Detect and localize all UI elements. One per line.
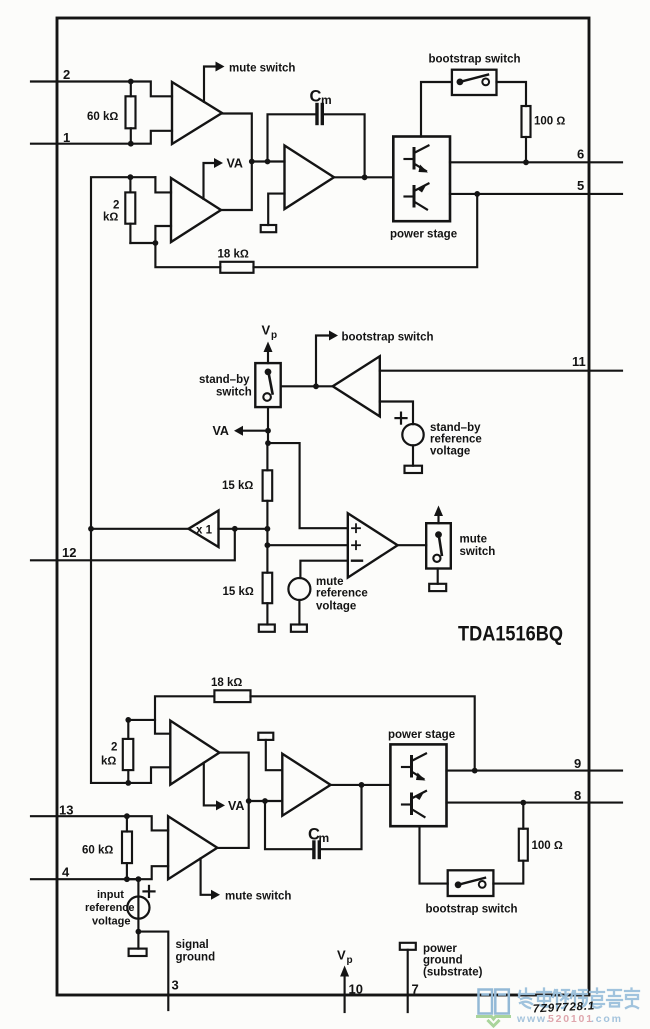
wire U2 output up [221, 162, 252, 211]
wire to comparator plus1 [268, 443, 348, 528]
wire U1 lower input step [131, 131, 172, 144]
transistor Q3 [402, 754, 426, 781]
wire stand-by switch to U4 [281, 385, 333, 387]
wire 18k to pin9 [251, 696, 475, 770]
node VA junction a [249, 159, 255, 165]
resistor R3 100 ohm top [522, 106, 531, 162]
svg-text:mute: mute [460, 533, 487, 545]
label Vp (bottom) [337, 948, 353, 967]
pin 11 wire [380, 370, 622, 372]
svg-text:power: power [423, 943, 457, 955]
node VA arrow junction [265, 428, 271, 434]
wire VA tap U7 [204, 763, 216, 806]
node pin9/feedback junction [472, 768, 478, 774]
mute switch contact dot [435, 531, 442, 538]
wire U9 upper input step [127, 816, 168, 830]
capacitor Cm bottom [314, 842, 319, 858]
node comparator plus2 junction [265, 542, 271, 548]
svg-text:kΩ: kΩ [101, 756, 116, 768]
stand-by switch lever [269, 373, 273, 394]
wire 100ohm to bootstrap ch2 [493, 861, 523, 884]
label Cm bottom [308, 826, 329, 846]
node U7 upper junction [125, 717, 131, 723]
wire bus to 2k top [91, 177, 155, 529]
watermark url [516, 1013, 623, 1025]
plus sign input ref [144, 886, 155, 897]
ground signal [129, 932, 147, 956]
wire 18k to U2 input [155, 243, 220, 267]
node 2k bottom junction [125, 780, 131, 786]
label 2 kOhm top [103, 200, 119, 224]
arrow bootstrap switch (middle) [329, 331, 338, 341]
svg-text:100 Ω: 100 Ω [532, 840, 563, 852]
svg-text:p: p [271, 330, 277, 341]
pin 10 wire [344, 974, 346, 1012]
wire power stage to bootstrap ch2 [420, 826, 448, 883]
svg-text:V: V [337, 948, 346, 963]
svg-text:.com: .com [591, 1013, 623, 1025]
svg-text:2: 2 [63, 67, 70, 82]
wire U7 output down [219, 753, 248, 801]
svg-text:stand–by: stand–by [430, 422, 481, 434]
wire bootstrap to 100 ohm [497, 82, 527, 106]
wire U3 output to power stage [334, 176, 393, 178]
node U2 lower junction [153, 240, 159, 246]
comparator plus2 mark [352, 541, 360, 549]
svg-text:3: 3 [172, 978, 179, 993]
ground mute ref [291, 625, 307, 632]
ground U8 driver [258, 733, 282, 771]
wire x1 output [219, 528, 268, 530]
svg-text:12: 12 [62, 545, 76, 560]
watermark book logo [478, 990, 510, 1027]
transistor Q1 [405, 146, 429, 173]
op-amp U6 (mute comparator) [348, 513, 398, 577]
op-amp U4 (stand-by amp) [333, 356, 380, 416]
wire 18k left leg [155, 696, 214, 720]
label mute reference voltage [316, 576, 368, 613]
svg-text:mute switch: mute switch [229, 63, 295, 75]
svg-text:p: p [347, 955, 353, 966]
resistor R10 100 ohm bottom [519, 803, 528, 861]
arrow Vp (middle) [264, 342, 273, 353]
label signal ground [176, 939, 216, 964]
pin 7 wire [407, 950, 409, 1012]
wire mute switch to ground [437, 569, 439, 584]
switch lever ch1 [460, 75, 488, 82]
arrow Vp pin 10 [340, 966, 349, 977]
node input ref junction [136, 876, 142, 882]
wire Cm to output node [324, 114, 365, 177]
mute switch lever [439, 535, 442, 555]
svg-text:9: 9 [574, 756, 581, 771]
arrow mute switch (bottom) [211, 890, 220, 900]
wire comparator to mute switch [398, 544, 427, 546]
op-amp U3 (driver ch1) [285, 146, 335, 210]
input reference source [127, 897, 149, 919]
mute reference source [288, 578, 310, 600]
node 2k top junction [127, 174, 133, 180]
pin 13 wire [31, 815, 127, 817]
ground power substrate [400, 943, 416, 950]
label Vp (middle) [262, 323, 278, 342]
wire Cm branch up [268, 114, 316, 161]
svg-text:reference: reference [85, 902, 135, 914]
wire Vp to stand-by switch [267, 350, 269, 363]
pin 9 wire [447, 770, 623, 772]
svg-text:mute: mute [316, 576, 343, 588]
wire bootstrap arrow (middle) [316, 336, 329, 387]
pin 1 wire [31, 143, 131, 145]
ground mute switch [429, 584, 446, 591]
svg-text:10: 10 [349, 982, 363, 997]
wire to comparator plus2 [267, 544, 347, 546]
label input reference voltage [85, 889, 135, 928]
label power ground substrate [423, 943, 483, 979]
svg-text:5: 5 [577, 178, 584, 193]
wire VA tap U2 [204, 163, 215, 199]
svg-text:11: 11 [572, 354, 586, 369]
op-amp U7 (feedback amp ch2) [170, 721, 219, 785]
svg-text:60 kΩ: 60 kΩ [82, 845, 113, 857]
mute switch box [426, 523, 451, 568]
node x1 output junction [232, 526, 238, 532]
label stand-by switch [199, 374, 252, 399]
svg-text:input: input [97, 889, 124, 901]
op-amp U9 (input amp ch2) [168, 816, 217, 879]
wire U4 ref input [380, 402, 413, 425]
svg-text:15 kΩ: 15 kΩ [222, 480, 253, 492]
wire U7 lower input step [151, 767, 170, 783]
capacitor Cm top [317, 105, 322, 124]
node output/Cm junction [362, 174, 368, 180]
svg-text:7: 7 [412, 982, 419, 997]
pin 3 wire [138, 932, 168, 1010]
wire U1 upper input step [131, 82, 172, 97]
resistor R2 2k top [125, 177, 135, 243]
svg-text:ground: ground [423, 954, 463, 966]
label mute switch (middle) [460, 533, 496, 558]
arrow VA (top) [214, 158, 223, 168]
wire U1 output down [222, 114, 252, 162]
wire U7 upper input step [128, 720, 170, 734]
wire VA node to U3 [252, 160, 285, 162]
wire feedback down ch1 [254, 194, 478, 267]
wire U8 output to power stage [331, 784, 391, 786]
node pin1/R1 junction [128, 141, 134, 147]
svg-text:switch: switch [216, 387, 252, 399]
wire stand-by switch to VA node [267, 407, 269, 443]
svg-text:1: 1 [63, 130, 70, 145]
arrow to mute switch (top) [216, 62, 225, 72]
svg-text:TDA1516BQ: TDA1516BQ [458, 623, 563, 646]
wire U2 lower input step [155, 226, 171, 243]
stand-by switch box [255, 363, 280, 407]
wire bus to x1 [91, 528, 189, 530]
svg-text:reference: reference [430, 434, 482, 446]
ground 15k chain [259, 625, 275, 632]
node pin13/R9 junction [124, 813, 130, 819]
svg-text:2: 2 [111, 742, 117, 754]
wire VA node to U8 [249, 800, 283, 802]
svg-text:VA: VA [228, 799, 244, 813]
node pin4/R9 junction [124, 876, 130, 882]
svg-text:18 kΩ: 18 kΩ [211, 677, 242, 689]
pin 2 wire [31, 80, 131, 82]
svg-text:V: V [262, 323, 271, 338]
label 2 kOhm bottom [101, 742, 117, 768]
svg-text:voltage: voltage [316, 600, 356, 612]
svg-text:13: 13 [59, 803, 73, 818]
node signal ground junction [136, 929, 142, 935]
wire comparator minus input [300, 561, 347, 578]
node VA junction c [246, 798, 252, 804]
svg-text:60 kΩ: 60 kΩ [87, 111, 118, 123]
svg-text:C: C [310, 88, 322, 106]
svg-text:bootstrap switch: bootstrap switch [429, 54, 521, 66]
svg-text:reference: reference [316, 587, 368, 599]
mute switch contact circle [433, 555, 440, 562]
wire mute tap U9 [201, 858, 211, 894]
comparator minus mark [352, 560, 362, 562]
op-amp U1 (input amp ch1) [172, 82, 222, 144]
resistor R1 60k top [126, 82, 136, 144]
op-amp U8 (driver ch2) [282, 754, 330, 816]
IC boundary box [57, 18, 589, 995]
svg-text:4: 4 [62, 865, 70, 880]
bootstrap switch box ch1 [452, 70, 497, 95]
wire U9 output up [217, 801, 248, 848]
wire Cm to output node bottom [321, 785, 362, 849]
pin 6 wire [450, 161, 622, 163]
svg-text:VA: VA [227, 157, 243, 171]
wire mute ref to ground [298, 600, 300, 625]
resistor R6 15k lower [263, 573, 273, 625]
pin 5 wire [450, 193, 622, 195]
op-amp U2 (feedback amp ch1) [171, 178, 221, 242]
node comparator branch junction [265, 440, 271, 446]
ground stand-by ref [405, 466, 423, 473]
pin 4 wire [31, 878, 138, 880]
svg-text:signal: signal [176, 939, 209, 951]
svg-text:100 Ω: 100 Ω [534, 116, 565, 128]
node pin8/100ohm junction [520, 800, 526, 806]
svg-text:VA: VA [213, 424, 229, 438]
switch contact circle ch1 [482, 79, 489, 86]
svg-text:ground: ground [176, 952, 216, 964]
svg-text:power stage: power stage [390, 229, 457, 241]
switch contact dot ch1 [457, 79, 464, 86]
svg-text:6: 6 [577, 147, 584, 162]
arrow mute switch up [434, 506, 443, 517]
watermark chinese characters [519, 989, 639, 1009]
svg-text:m: m [319, 831, 330, 845]
node VA junction d [262, 798, 268, 804]
svg-text:switch: switch [460, 546, 496, 558]
svg-text:bootstrap switch: bootstrap switch [426, 903, 518, 915]
stand-by reference source [402, 424, 423, 445]
wire mute switch up [437, 514, 439, 523]
node pin5/feedback junction [474, 191, 480, 197]
node chain/x1 junction [265, 526, 271, 532]
svg-text:15 kΩ: 15 kΩ [223, 586, 254, 598]
svg-text:(substrate): (substrate) [423, 966, 483, 978]
bootstrap switch box ch2 [448, 870, 494, 896]
svg-text:bootstrap switch: bootstrap switch [342, 332, 434, 344]
wire 2k bottom to junction [130, 242, 155, 244]
svg-text:x 1: x 1 [196, 525, 213, 537]
transistor Q2 [405, 184, 429, 210]
wire Cm branch down [265, 801, 312, 849]
resistor R7 2k bottom [123, 720, 134, 783]
transistor Q4 [402, 791, 426, 817]
pin 12 wire [31, 529, 235, 561]
node x1 input junction [88, 526, 94, 532]
svg-text:stand–by: stand–by [199, 374, 250, 386]
wire power stage top to bootstrap [421, 82, 452, 137]
node 100ohm/pin6 junction [523, 159, 529, 165]
resistor R5 15k upper [263, 443, 273, 573]
pin 8 wire [447, 802, 623, 804]
switch lever ch2 [458, 878, 485, 885]
label stand-by reference voltage [430, 422, 482, 458]
stand-by switch contact circle [263, 393, 271, 401]
svg-text:8: 8 [574, 788, 581, 803]
resistor R9 60k bottom [122, 816, 132, 879]
arrow VA (bottom) [216, 800, 225, 810]
svg-text:520101: 520101 [548, 1013, 594, 1025]
resistor R4 18k top [220, 262, 253, 273]
arrow VA (middle) [234, 426, 243, 436]
svg-text:voltage: voltage [430, 446, 470, 458]
node bootstrap tap junction [313, 383, 319, 389]
node VA junction b [265, 159, 271, 165]
node pin2/R1 junction [128, 79, 134, 85]
wire U9 lower input step [127, 866, 168, 879]
resistor R8 18k bottom [214, 690, 250, 702]
wire stand-by ref to ground [412, 445, 414, 465]
stand-by switch contact dot [265, 369, 272, 376]
op-amp U5 (x1 buffer) [189, 511, 219, 548]
power stage box ch1 [393, 137, 450, 222]
comparator plus1 mark [352, 524, 360, 532]
switch contact dot ch2 [455, 881, 462, 888]
svg-text:mute switch: mute switch [225, 890, 291, 902]
svg-text:2: 2 [113, 200, 119, 212]
wire U2 upper input step [155, 177, 171, 192]
svg-text:kΩ: kΩ [103, 212, 118, 224]
wire bus to 2k bottom [91, 529, 151, 783]
wire mute tap U1 [204, 67, 216, 102]
svg-text:18 kΩ: 18 kΩ [218, 249, 249, 261]
svg-text:voltage: voltage [92, 915, 131, 927]
plus sign stand-by ref [396, 413, 407, 424]
node output/Cm junction bottom [359, 782, 365, 788]
switch contact circle ch2 [479, 881, 486, 888]
ground top driver [261, 194, 285, 233]
svg-text:power stage: power stage [388, 729, 455, 741]
svg-text:m: m [321, 93, 332, 107]
wire VA arrow (middle) [242, 430, 268, 432]
label Cm top [310, 88, 332, 108]
wire pin4 to input ref [137, 879, 139, 931]
power stage box ch2 [390, 744, 446, 826]
